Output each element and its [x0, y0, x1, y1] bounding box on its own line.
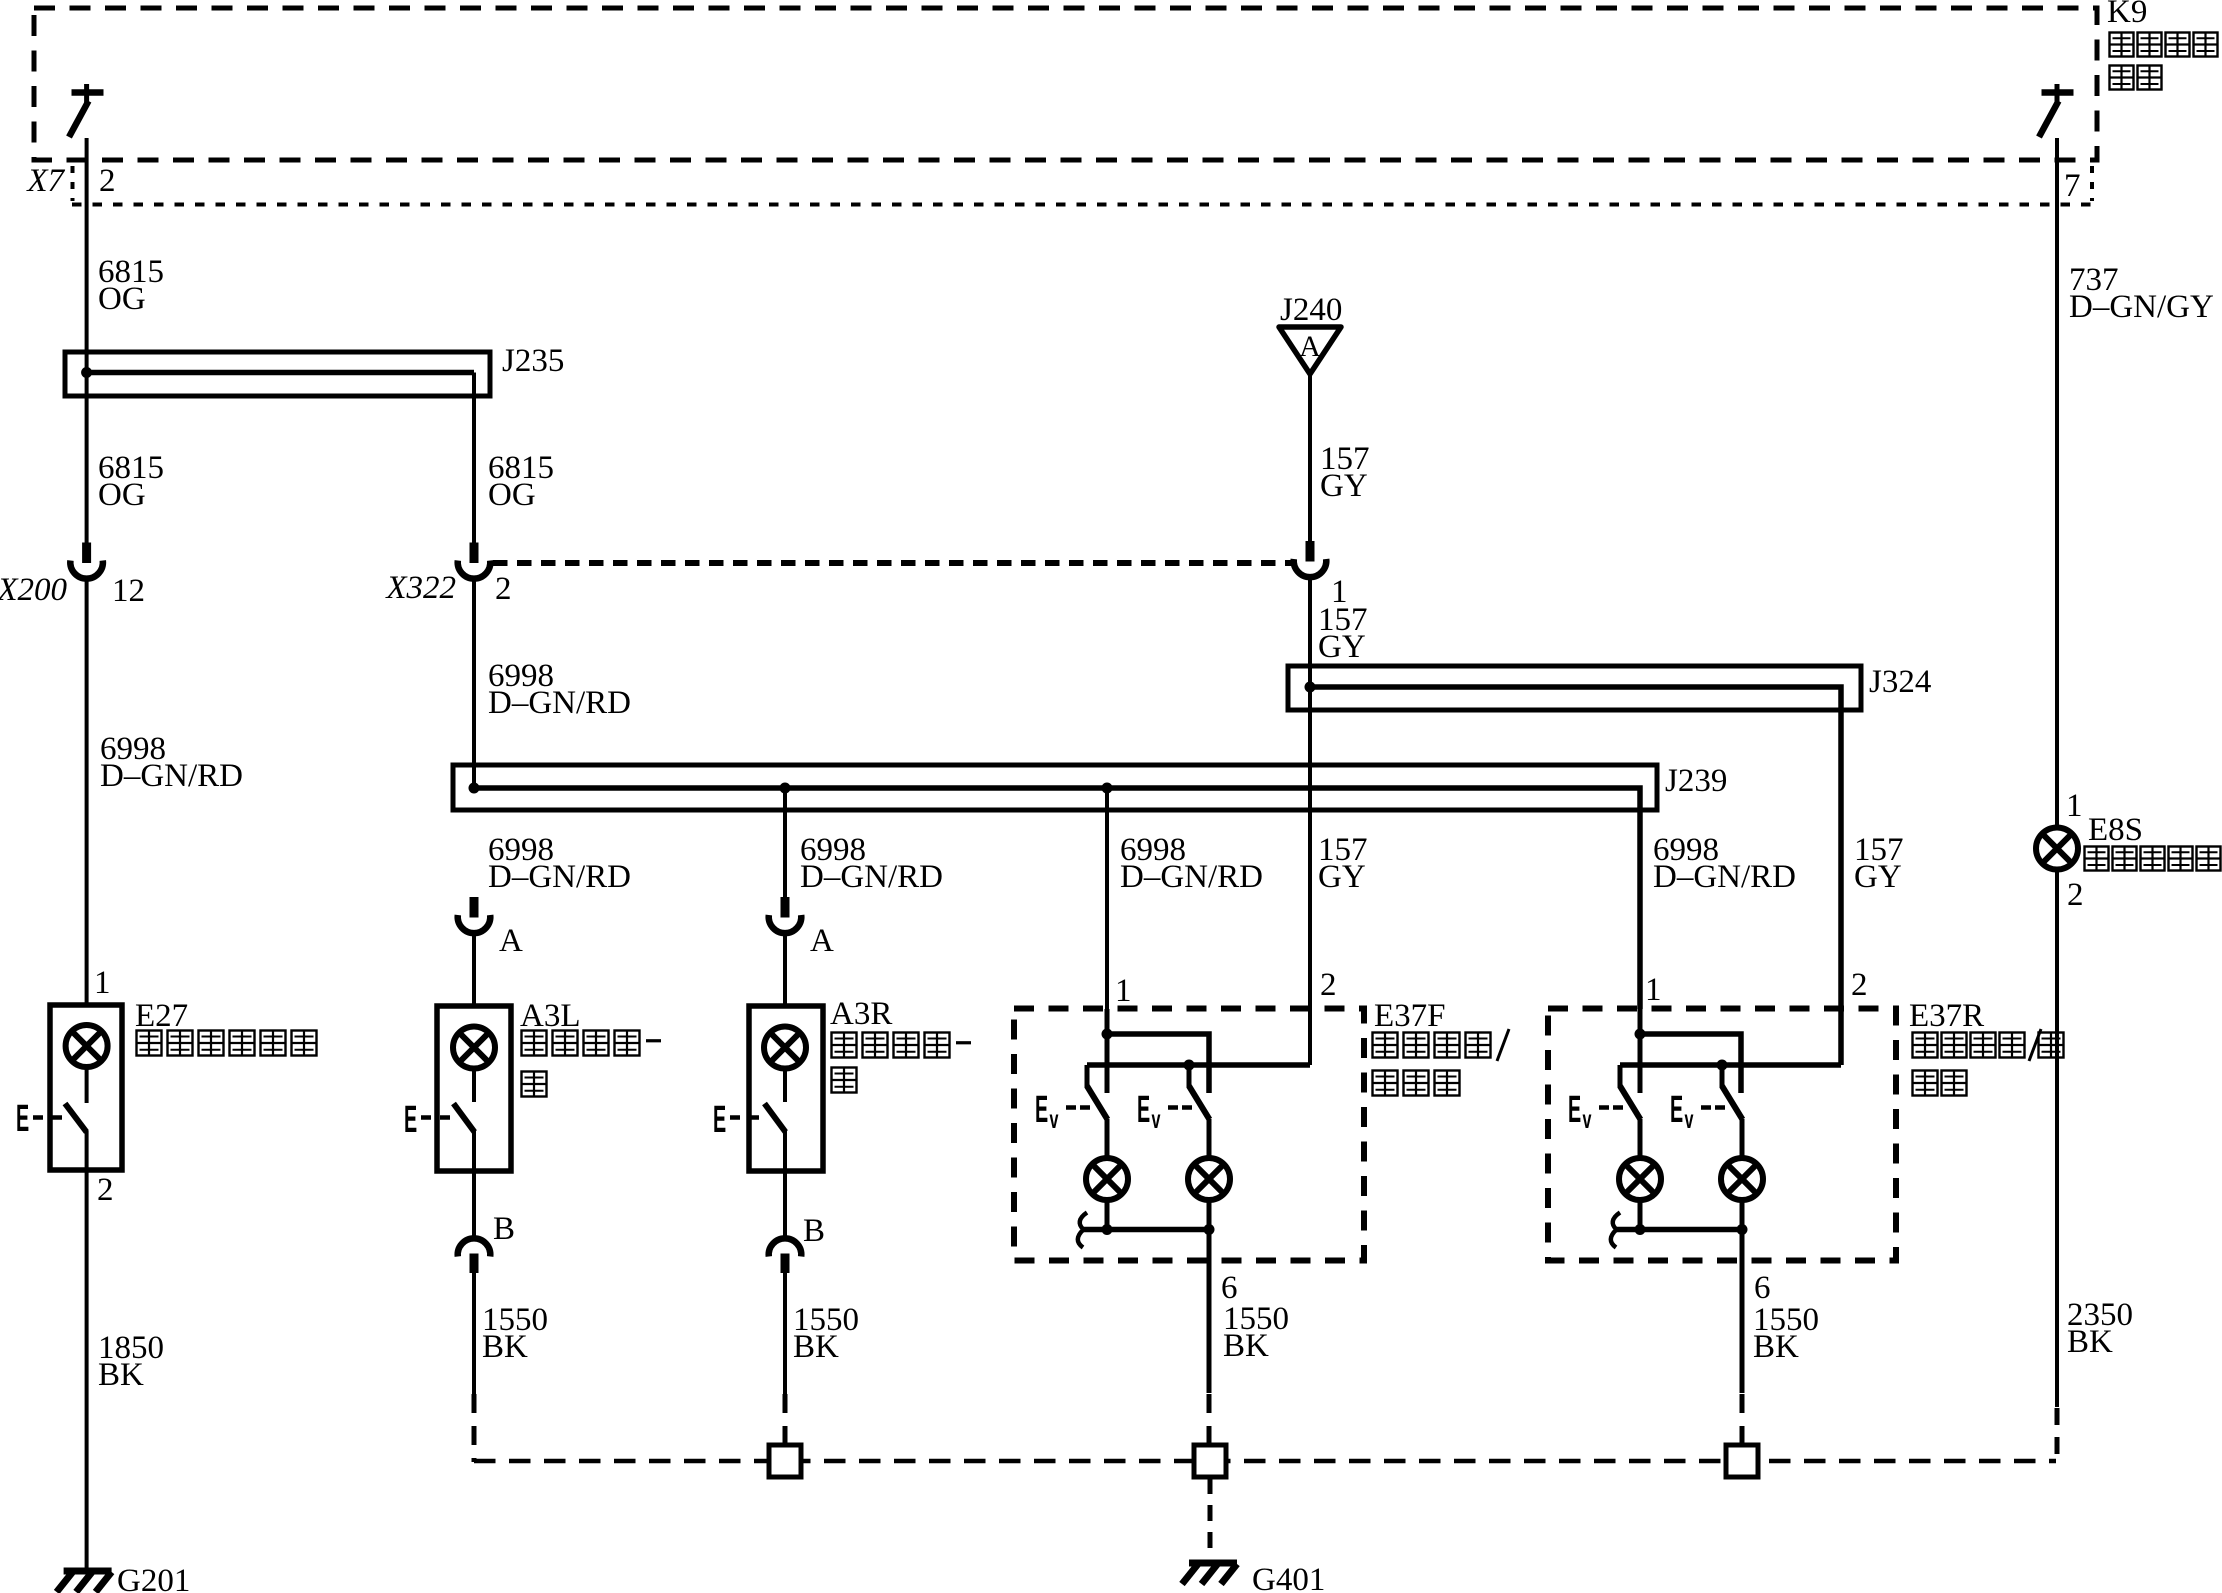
157 line crossover inside E37F	[1087, 1062, 1310, 1068]
actuator Ev right E37R	[1670, 1089, 1725, 1134]
lamp right E37F	[1188, 1158, 1230, 1200]
wire pin1 feed inside E37R	[1638, 1009, 1643, 1093]
svg-text:v: v	[1152, 1104, 1161, 1134]
label 防晒窗帘- left	[522, 1031, 662, 1056]
label 前部顶灯/	[1373, 1029, 1510, 1061]
svg-text:1: 1	[94, 965, 111, 1001]
svg-text:A3L: A3L	[520, 998, 581, 1034]
svg-text:7: 7	[2064, 168, 2081, 204]
junction dot bus left E37F	[1102, 1224, 1113, 1235]
dashed lead to G401	[1208, 1478, 1213, 1557]
ground G201	[64, 1568, 112, 1575]
svg-text:D–GN/RD: D–GN/RD	[488, 859, 631, 895]
svg-text:G401: G401	[1252, 1562, 1325, 1593]
svg-text:1: 1	[2066, 788, 2083, 824]
wire 6998 D-GN/RD X322 to J239	[472, 580, 476, 788]
switch stub right E37F	[1187, 1065, 1192, 1088]
wire 2350 BK below E8S	[2055, 870, 2059, 1408]
svg-text:v: v	[1050, 1104, 1059, 1134]
svg-text:X322: X322	[384, 570, 456, 606]
wire blade to lamp right E37R	[1740, 1119, 1745, 1158]
junction dot J235 left	[81, 367, 92, 378]
svg-text:A: A	[499, 923, 523, 959]
splice J235 bus bar	[65, 352, 490, 396]
dashed ground lead A3L	[472, 1394, 477, 1462]
dashed harness line X322 to J240 connector	[493, 560, 1293, 566]
return bus E37R	[1614, 1227, 1742, 1233]
K9 internal switch right (pin 7 output)	[2039, 84, 2074, 137]
svg-text:12: 12	[112, 573, 145, 609]
dashed ground bus	[474, 1459, 2056, 1464]
label 车身控制	[2110, 33, 2218, 57]
junction dot J239 at E37F wire	[1102, 783, 1113, 794]
wire 6998 D-GN/RD X200 to E27	[85, 580, 89, 1005]
svg-text:GY: GY	[1854, 859, 1902, 895]
lamp right E37R	[1721, 1158, 1763, 1200]
junction dot bus right E37F	[1204, 1224, 1215, 1235]
in-line connector pin 1	[1306, 541, 1315, 562]
wire lamp right to return bus E37F	[1207, 1200, 1212, 1230]
label 仪表板车照灯	[137, 1031, 317, 1056]
lamp/switch unit E27 instrument panel light box	[50, 1005, 122, 1170]
svg-text:1: 1	[1115, 973, 1132, 1009]
wire 6815 OG J235 right branch to X322	[472, 373, 476, 544]
splice square A3R ground	[769, 1445, 801, 1477]
lamp of E27	[66, 1025, 108, 1067]
label 防晒窗帘- right	[832, 1033, 972, 1058]
return bus E37F	[1081, 1227, 1209, 1233]
lamp/switch unit A3L sunshade curtain left box	[437, 1006, 511, 1171]
wire lamp left to return bus E37R	[1638, 1200, 1643, 1230]
actuator E dashes A3L	[404, 1099, 450, 1140]
K9 internal switch left (pin 2 output)	[69, 84, 104, 137]
switch stub left E37R	[1618, 1065, 1623, 1088]
connector A of A3L	[470, 897, 479, 918]
label 模块	[2110, 66, 2162, 90]
svg-text:E: E	[713, 1099, 726, 1140]
junction dot on 157 line E37R	[1717, 1060, 1728, 1071]
svg-text:D–GN/RD: D–GN/RD	[1120, 859, 1263, 895]
label 行李箱门灯	[2085, 847, 2221, 871]
label 右	[832, 1068, 857, 1093]
connector X7 band bottom dotted line	[72, 203, 2092, 207]
svg-text:E: E	[404, 1099, 417, 1140]
unit E37F front dome/reading lamp dashed box	[1014, 1009, 1364, 1261]
label 读灯	[1913, 1071, 1967, 1096]
svg-text:BK: BK	[1753, 1329, 1799, 1365]
svg-text:BK: BK	[793, 1329, 839, 1365]
svg-text:OG: OG	[98, 477, 146, 513]
svg-text:X200: X200	[0, 572, 67, 608]
junction dot J324	[1305, 682, 1316, 693]
connector B of A3L	[458, 1238, 491, 1256]
wire 1550 BK pin 6 E37R	[1740, 1230, 1745, 1394]
svg-text:1: 1	[1645, 972, 1662, 1008]
connector X200 pin 12	[82, 543, 91, 564]
wire lamp left to return bus E37F	[1105, 1200, 1110, 1230]
wire 1550 BK pin 6 E37F	[1207, 1230, 1212, 1394]
wire 737 D-GN/GY from K9 X7-7 to E8S	[2055, 138, 2059, 828]
svg-text:K9: K9	[2107, 0, 2147, 30]
svg-text:GY: GY	[1318, 629, 1366, 665]
actuator E dashes A3R	[713, 1099, 759, 1140]
157 line crossover inside E37R	[1620, 1062, 1841, 1068]
svg-text:E: E	[16, 1098, 29, 1139]
dashed ground lead E37F	[1207, 1394, 1212, 1446]
svg-text:D–GN/GY: D–GN/GY	[2069, 289, 2214, 325]
svg-text:J240: J240	[1280, 292, 1342, 328]
wire connector A to A3R	[783, 933, 787, 1006]
switch stub right E37R	[1720, 1065, 1725, 1088]
junction dot J239 at A3R wire	[780, 783, 791, 794]
lamp E8S trunk door lamp	[2036, 828, 2078, 870]
wire A3L to connector B	[472, 1171, 476, 1237]
wire 157 GY J240 to in-line connector	[1308, 374, 1312, 542]
wire 1550 BK below A3L	[472, 1273, 476, 1395]
wire switch to box bottom A3R	[783, 1131, 787, 1171]
svg-text:2: 2	[2067, 877, 2084, 913]
svg-text:D–GN/RD: D–GN/RD	[1653, 859, 1796, 895]
label 阅读灯	[1373, 1071, 1460, 1096]
splice square E37R ground	[1726, 1445, 1758, 1477]
wire connector A to A3L	[472, 933, 476, 1006]
actuator Ev right E37F	[1137, 1089, 1192, 1134]
module K9 body control module dashed box	[34, 8, 2097, 160]
junction dot E37R pin1	[1635, 1029, 1646, 1040]
connector X7 left dotted end	[71, 166, 75, 201]
wire 1550 BK below A3R	[783, 1273, 787, 1395]
svg-text:2: 2	[99, 163, 116, 199]
svg-text:A: A	[810, 923, 834, 959]
wire switch to box bottom A3L	[472, 1131, 476, 1171]
junction dot J239 at A3L wire	[469, 783, 480, 794]
svg-text:J324: J324	[1869, 664, 1931, 700]
wire 6815 OG J235 to X200	[0, 0, 1, 1]
switch stub left E37F	[1085, 1065, 1090, 1088]
feed crossover to right switch E37F	[1107, 1034, 1209, 1093]
unit E37R rear dome/reading lamp dashed box	[1548, 1009, 1896, 1261]
svg-text:E: E	[1568, 1089, 1581, 1130]
svg-text:BK: BK	[98, 1357, 144, 1393]
svg-text:D–GN/RD: D–GN/RD	[100, 758, 243, 794]
wire pin1 feed inside E37F	[1105, 1009, 1110, 1093]
svg-text:BK: BK	[2067, 1324, 2113, 1360]
connector A of A3R	[781, 897, 790, 918]
svg-text:BK: BK	[1223, 1328, 1269, 1364]
actuator E dashes E27	[16, 1098, 62, 1139]
splice J239 bus bar	[453, 765, 1657, 1009]
lamp left E37F	[1086, 1158, 1128, 1200]
connector J240 triangle A	[1279, 327, 1341, 374]
svg-text:2: 2	[97, 1172, 114, 1208]
lamp of A3L	[453, 1027, 495, 1069]
svg-text:OG: OG	[488, 477, 536, 513]
lamp/switch unit A3R sunshade curtain right box	[749, 1006, 823, 1171]
label 后部顶灯/阅	[1913, 1029, 2042, 1061]
svg-text:2: 2	[495, 571, 512, 607]
dashed ground lead E8S	[2055, 1408, 2060, 1462]
svg-text:E: E	[1670, 1089, 1683, 1130]
ground G401	[1189, 1560, 1237, 1567]
switch blade A3L	[454, 1104, 475, 1133]
svg-text:v: v	[1583, 1104, 1592, 1134]
svg-text:BK: BK	[482, 1329, 528, 1365]
feed crossover to right switch E37R	[1640, 1034, 1741, 1093]
actuator Ev left E37F	[1035, 1089, 1090, 1134]
svg-text:v: v	[1685, 1104, 1694, 1134]
switch blade E27	[65, 1104, 87, 1133]
splice square E37F ground	[1194, 1445, 1226, 1477]
dashed ground lead A3R	[783, 1394, 788, 1446]
splice J324 bus bar	[1288, 666, 1861, 1065]
actuator Ev left E37R	[1568, 1089, 1623, 1134]
junction dot bus left E37R	[1635, 1224, 1646, 1235]
lamp of A3R	[764, 1027, 806, 1069]
svg-text:J239: J239	[1665, 763, 1727, 799]
junction dot bus right E37R	[1737, 1224, 1748, 1235]
svg-text:A3R: A3R	[830, 996, 892, 1032]
svg-text:E37R: E37R	[1909, 998, 1984, 1034]
svg-text:E27: E27	[135, 998, 188, 1034]
lamp left E37R	[1619, 1158, 1661, 1200]
switch blade right E37F	[1189, 1086, 1210, 1120]
svg-text:X7: X7	[25, 163, 65, 199]
wire blade to lamp left E37R	[1638, 1119, 1643, 1158]
switch blade right E37R	[1722, 1086, 1743, 1120]
svg-text:G201: G201	[117, 1563, 190, 1593]
svg-text:E: E	[1137, 1089, 1150, 1130]
svg-text:B: B	[493, 1211, 515, 1247]
wire 1850 BK E27 to G201	[85, 1170, 89, 1574]
connector B of A3R	[769, 1238, 802, 1256]
svg-text:B: B	[803, 1213, 825, 1249]
svg-text:J235: J235	[502, 343, 564, 379]
case ground squiggle E37F	[1078, 1213, 1087, 1248]
junction dot on 157 line E37F	[1184, 1060, 1195, 1071]
wire 6815 OG from K9 X7-2 down to J235	[85, 138, 89, 543]
svg-text:2: 2	[1851, 967, 1868, 1003]
switch blade A3R	[765, 1104, 786, 1133]
svg-text:E: E	[1035, 1089, 1048, 1130]
wire lamp to switch A3R	[783, 1069, 787, 1103]
svg-text:D–GN/RD: D–GN/RD	[800, 859, 943, 895]
case ground squiggle E37R	[1611, 1213, 1620, 1248]
svg-text:E8S: E8S	[2088, 812, 2143, 848]
svg-text:OG: OG	[98, 281, 146, 317]
wire A3R to connector B	[783, 1171, 787, 1237]
wire blade to lamp right E37F	[1207, 1119, 1212, 1158]
svg-text:2: 2	[1320, 967, 1337, 1003]
svg-text:6: 6	[1754, 1270, 1771, 1306]
svg-text:D–GN/RD: D–GN/RD	[488, 685, 631, 721]
dashed ground lead E37R	[1740, 1394, 1745, 1446]
junction dot E37F pin1	[1102, 1029, 1113, 1040]
svg-text:GY: GY	[1318, 859, 1366, 895]
svg-text:A: A	[1299, 330, 1321, 363]
svg-text:E37F: E37F	[1374, 998, 1446, 1034]
wire blade to lamp left E37F	[1105, 1119, 1110, 1158]
switch blade left E37F	[1087, 1086, 1108, 1120]
connector X322 pin 2	[470, 543, 479, 564]
wire 6998 D-GN/RD J239 to E37F pin 1	[1105, 788, 1109, 1009]
wire 6998 D-GN/RD J239 to A3R connector A	[783, 788, 787, 897]
wire lamp to switch E27	[85, 1067, 89, 1103]
wire 157 GY down to E37F pin 2	[1308, 579, 1312, 1066]
switch blade left E37R	[1620, 1086, 1641, 1120]
wire switch to box bottom E27	[85, 1131, 89, 1170]
label 左	[522, 1072, 547, 1097]
connector X7 right dotted end	[2090, 166, 2094, 201]
wire lamp right to return bus E37R	[1740, 1200, 1745, 1230]
svg-text:GY: GY	[1320, 468, 1368, 504]
wire lamp to switch A3L	[472, 1069, 476, 1103]
